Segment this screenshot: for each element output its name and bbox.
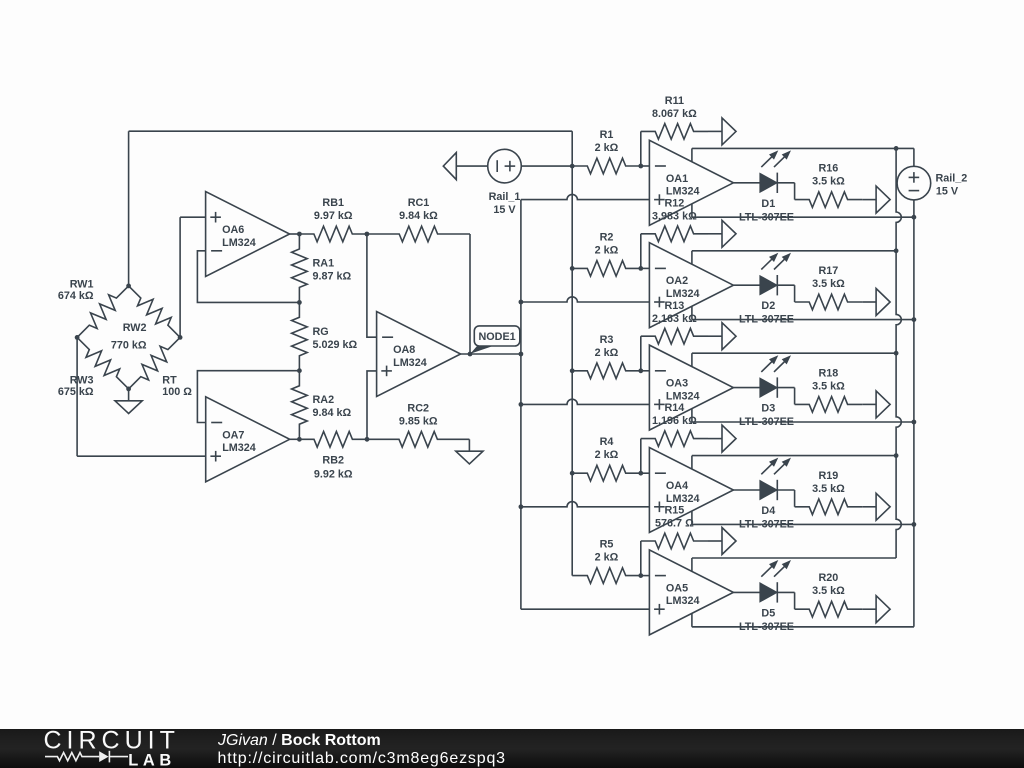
wire: OA4 V- pin to bottom rail bbox=[691, 511, 693, 524]
op-amp OA2 bbox=[649, 243, 733, 328]
junction (77.1,337.4) bbox=[75, 335, 80, 340]
svg-text:RC2: RC2 bbox=[407, 402, 429, 414]
resistor RB2 9.92k bbox=[299, 432, 367, 448]
junction (572.2,473.2) bbox=[570, 471, 575, 476]
svg-text:9.84 kΩ: 9.84 kΩ bbox=[313, 407, 352, 419]
svg-text:2 kΩ: 2 kΩ bbox=[595, 552, 619, 564]
svg-text:675 kΩ: 675 kΩ bbox=[58, 386, 94, 398]
svg-text:http://circuitlab.com/c3m8eg6e: http://circuitlab.com/c3m8eg6ezspq3 bbox=[218, 750, 506, 767]
junction (640.8,370.8) bbox=[638, 368, 643, 373]
svg-text:D5: D5 bbox=[761, 607, 775, 619]
wire: OA7 - feedback loop to RG/RA2 node bbox=[197, 371, 299, 423]
resistor R13 ladder 2,163 kΩ bbox=[640, 336, 642, 371]
svg-text:OA4: OA4 bbox=[666, 480, 688, 492]
svg-text:RC1: RC1 bbox=[408, 197, 430, 209]
wire: D5 to R110 step bbox=[794, 592, 796, 609]
svg-text:OA5: OA5 bbox=[666, 582, 688, 594]
wire: OA8 output to NODE1 column bbox=[461, 353, 521, 355]
wire: NODE1 to OA4 + input bbox=[521, 502, 650, 507]
svg-text:3.5 kΩ: 3.5 kΩ bbox=[812, 483, 845, 495]
junction (640.8,268.4) bbox=[638, 266, 643, 271]
junction (299.4,370.7) bbox=[297, 368, 302, 373]
node flag (R11 output net) bbox=[722, 118, 736, 145]
junction (470.0,354.0) bbox=[468, 352, 473, 357]
svg-text:15 V: 15 V bbox=[936, 186, 959, 198]
svg-text:15 V: 15 V bbox=[493, 204, 516, 216]
resistor RW3 675k (bridge bottom-left arm) bbox=[77, 337, 129, 389]
node flag (R12 output net) bbox=[722, 220, 736, 247]
svg-text:LM324: LM324 bbox=[222, 442, 256, 454]
node flag (R13 output net) bbox=[722, 323, 736, 350]
svg-text:LM324: LM324 bbox=[666, 186, 700, 198]
junction (572.2,268.4) bbox=[570, 266, 575, 271]
svg-text:2 kΩ: 2 kΩ bbox=[595, 449, 619, 461]
junction (913.9,217.2) bbox=[912, 215, 917, 220]
svg-text:NODE1: NODE1 bbox=[478, 331, 515, 343]
svg-text:2 kΩ: 2 kΩ bbox=[595, 347, 619, 359]
svg-text:R15: R15 bbox=[664, 505, 684, 517]
svg-text:LAB: LAB bbox=[128, 751, 176, 768]
wire: OA8 - to RB1/RC1 node bbox=[367, 234, 377, 337]
wire: OA1 V- pin to bottom rail bbox=[691, 204, 693, 217]
svg-text:2 kΩ: 2 kΩ bbox=[595, 244, 619, 256]
svg-text:CIRCUIT: CIRCUIT bbox=[44, 726, 180, 754]
svg-text:OA7: OA7 bbox=[222, 429, 244, 441]
svg-text:9.87 kΩ: 9.87 kΩ bbox=[313, 270, 352, 282]
op-amp OA1 bbox=[649, 140, 733, 225]
ground (RC2) bbox=[468, 439, 470, 451]
wire: bridge left node down to OA7 + bbox=[76, 337, 78, 456]
voltage source Rail_1 15V bbox=[443, 153, 456, 180]
svg-text:RW2: RW2 bbox=[123, 322, 147, 334]
op-amp OA3 bbox=[649, 345, 733, 430]
svg-text:2,163 kΩ: 2,163 kΩ bbox=[652, 313, 697, 325]
resistor RC1 9.84k bbox=[367, 226, 470, 242]
junction (896.1,455.6) bbox=[894, 453, 899, 458]
wire: OA7 output bbox=[290, 438, 300, 440]
svg-text:674 kΩ: 674 kΩ bbox=[58, 290, 94, 302]
svg-text:LM324: LM324 bbox=[666, 595, 700, 607]
wire: bridge right node up to OA6 + bbox=[179, 217, 181, 337]
junction (299.4,234.0) bbox=[297, 232, 302, 237]
wire: right rail B top corner bbox=[913, 148, 915, 166]
svg-text:OA6: OA6 bbox=[222, 224, 244, 236]
wire: D1 to R16 step bbox=[794, 183, 796, 200]
svg-text:100 Ω: 100 Ω bbox=[162, 386, 192, 398]
wire: OA3 V+ pin to top rail bbox=[691, 353, 693, 366]
wire: bridge top node riser bbox=[128, 131, 130, 286]
ground (bridge bottom) bbox=[128, 389, 130, 401]
svg-text:2 kΩ: 2 kΩ bbox=[595, 142, 619, 154]
node flag (R16 net) bbox=[876, 186, 890, 213]
wire: right rail A (op-amp V+ rail) bbox=[896, 148, 901, 558]
svg-text:9.84 kΩ: 9.84 kΩ bbox=[399, 210, 438, 222]
junction (572.2,166.1) bbox=[570, 164, 575, 169]
wire: R4 to OA4 - input bbox=[641, 472, 650, 474]
node flag (R14 output net) bbox=[722, 425, 736, 452]
wire: D2 to R17 step bbox=[794, 285, 796, 302]
svg-text:9.97 kΩ: 9.97 kΩ bbox=[314, 210, 353, 222]
wire: D4 to R19 step bbox=[794, 490, 796, 507]
LED D1 LTL-307EE bbox=[733, 182, 760, 184]
junction (180.1,337.4) bbox=[178, 335, 183, 340]
svg-text:3,983 kΩ: 3,983 kΩ bbox=[652, 210, 697, 222]
wire: OA6 output bbox=[290, 233, 300, 235]
svg-text:R13: R13 bbox=[664, 300, 684, 312]
junction (896.1,148.4) bbox=[894, 146, 899, 151]
junction (572.2,370.8) bbox=[570, 368, 575, 373]
svg-text:LM324: LM324 bbox=[666, 390, 700, 402]
resistor R17 3.5k bbox=[795, 294, 863, 310]
svg-text:5.029 kΩ: 5.029 kΩ bbox=[313, 339, 358, 351]
wire: OA5 V- pin to bottom rail bbox=[691, 613, 693, 626]
svg-text:RG: RG bbox=[313, 326, 329, 338]
wire: right rail B (op-amp V- rail) bbox=[913, 200, 915, 627]
resistor RC2 9.85k bbox=[367, 432, 469, 448]
op-amp OA7 bbox=[206, 397, 290, 482]
resistor RA2 9.84k bbox=[292, 371, 308, 440]
resistor RB1 9.97k bbox=[299, 226, 367, 242]
junction (896.1,250.8) bbox=[894, 248, 899, 253]
wire: OA1 V+ pin to top rail bbox=[691, 148, 693, 161]
op-amp OA4 bbox=[649, 448, 733, 533]
node flag (R15 output net) bbox=[722, 528, 736, 555]
svg-text:R2: R2 bbox=[600, 231, 614, 243]
wire: OA5 V+ pin to top rail bbox=[691, 558, 693, 571]
svg-text:R3: R3 bbox=[600, 334, 614, 346]
junction (913.9,524.4) bbox=[912, 522, 917, 527]
resistor R3 2k bbox=[572, 363, 641, 379]
svg-text:OA2: OA2 bbox=[666, 275, 688, 287]
LED D5 LTL-307EE bbox=[733, 591, 760, 593]
svg-text:R18: R18 bbox=[818, 367, 838, 379]
resistor R11 ladder 8.067 kΩ bbox=[640, 131, 642, 166]
op-amp OA5 bbox=[649, 550, 733, 635]
resistor R16 3.5k bbox=[795, 192, 863, 208]
op-amp OA8 bbox=[377, 312, 461, 397]
svg-text:LM324: LM324 bbox=[393, 357, 427, 369]
svg-text:9.85 kΩ: 9.85 kΩ bbox=[399, 415, 438, 427]
resistor R2 2k bbox=[572, 261, 641, 277]
resistor RA1 9.87k bbox=[292, 234, 308, 302]
svg-text:770 kΩ: 770 kΩ bbox=[111, 339, 147, 351]
wire: NODE1 to OA5 + input bbox=[521, 608, 650, 610]
svg-text:R16: R16 bbox=[818, 163, 838, 175]
resistor RT 100 (bridge bottom-right arm) bbox=[129, 337, 181, 389]
node flag (R19 net) bbox=[876, 493, 890, 520]
voltage source Rail_2 15V bbox=[897, 166, 931, 200]
svg-text:Rail_2: Rail_2 bbox=[936, 173, 968, 185]
wire: OA4 V+ pin to top rail bbox=[691, 456, 693, 469]
wire: NODE1 to OA2 + input bbox=[521, 297, 650, 302]
svg-text:R11: R11 bbox=[665, 95, 684, 107]
svg-text:RB1: RB1 bbox=[322, 197, 344, 209]
svg-text:3.5 kΩ: 3.5 kΩ bbox=[812, 278, 845, 290]
wire: R2 to OA2 - input bbox=[641, 267, 650, 269]
wire: OA8 + to RB2/RC2 node bbox=[367, 371, 377, 439]
resistor R15 ladder 576.7 Ω bbox=[640, 541, 642, 576]
wire: top-left rail from bridge to Rail_1 column bbox=[129, 130, 573, 132]
resistor R5 2k bbox=[572, 568, 641, 584]
node NODE1 flag bbox=[470, 346, 493, 354]
node flag (R20 net) bbox=[876, 596, 890, 623]
svg-text:LM324: LM324 bbox=[666, 288, 700, 300]
junction (366.9,234.0) bbox=[365, 232, 370, 237]
wire: RC1 feedback down to OA8 output bbox=[469, 234, 471, 354]
junction (640.8,166.0) bbox=[638, 164, 643, 169]
svg-text:RT: RT bbox=[162, 374, 177, 386]
wire: OA2 V+ pin to top rail bbox=[691, 251, 693, 264]
svg-text:RB2: RB2 bbox=[322, 454, 344, 466]
svg-text:RA1: RA1 bbox=[313, 257, 335, 269]
resistor R14 ladder 1,196 kΩ bbox=[640, 439, 642, 474]
wire: NODE1 to OA3 + input bbox=[521, 399, 650, 404]
resistor R1 2k bbox=[572, 158, 641, 174]
junction (913.9,422.0) bbox=[912, 420, 917, 425]
junction (896.1,353.2) bbox=[894, 351, 899, 356]
svg-text:JGivan / Bock Rottom: JGivan / Bock Rottom bbox=[217, 732, 381, 749]
wire: OA6 - feedback loop to RA1/RG node bbox=[197, 251, 299, 303]
junction (640.8,575.6) bbox=[638, 573, 643, 578]
svg-text:576.7 Ω: 576.7 Ω bbox=[655, 518, 694, 530]
svg-text:LTL-307EE: LTL-307EE bbox=[739, 416, 794, 428]
LED D4 LTL-307EE bbox=[733, 489, 760, 491]
svg-text:8.067 kΩ: 8.067 kΩ bbox=[652, 108, 697, 120]
wire: R3 to OA3 - input bbox=[641, 370, 650, 372]
svg-text:Rail_1: Rail_1 bbox=[489, 191, 521, 203]
resistor R20 3.5k bbox=[795, 601, 863, 617]
svg-text:R1: R1 bbox=[600, 129, 614, 141]
svg-text:D3: D3 bbox=[761, 403, 775, 415]
junction (520.9,302.0) bbox=[519, 300, 524, 305]
svg-text:OA8: OA8 bbox=[393, 344, 415, 356]
svg-text:R17: R17 bbox=[818, 265, 838, 277]
svg-text:3.5 kΩ: 3.5 kΩ bbox=[812, 176, 845, 188]
junction (299.4,439.3) bbox=[297, 437, 302, 442]
svg-text:D4: D4 bbox=[761, 505, 775, 517]
node flag (R18 net) bbox=[876, 391, 890, 418]
wire: NODE1 to OA1 + input bbox=[521, 194, 650, 199]
junction (913.9,319.6) bbox=[912, 317, 917, 322]
svg-text:LTL-307EE: LTL-307EE bbox=[739, 314, 794, 326]
junction (520.9,354.0) bbox=[519, 352, 524, 357]
svg-text:D2: D2 bbox=[761, 300, 775, 312]
svg-text:3.5 kΩ: 3.5 kΩ bbox=[812, 585, 845, 597]
svg-text:R20: R20 bbox=[818, 572, 838, 584]
CircuitLab logo doodle (resistor + diode) bbox=[45, 751, 128, 763]
junction (128.6,388.9) bbox=[126, 387, 131, 392]
svg-text:R4: R4 bbox=[600, 436, 614, 448]
svg-text:RA2: RA2 bbox=[313, 394, 335, 406]
svg-text:LTL-307EE: LTL-307EE bbox=[739, 211, 794, 223]
svg-text:RW1: RW1 bbox=[70, 279, 94, 291]
wire: R1 to OA1 - input bbox=[641, 165, 650, 167]
svg-text:R12: R12 bbox=[664, 197, 684, 209]
LED D2 LTL-307EE bbox=[733, 284, 760, 286]
svg-text:OA1: OA1 bbox=[666, 173, 688, 185]
wire: OA3 V- pin to bottom rail bbox=[691, 409, 693, 422]
resistor R18 3.5k bbox=[795, 397, 863, 413]
svg-text:RW3: RW3 bbox=[70, 374, 94, 386]
junction (367.0,439.3) bbox=[365, 437, 370, 442]
resistor R12 ladder 3,983 kΩ bbox=[640, 234, 642, 269]
svg-text:D1: D1 bbox=[761, 198, 775, 210]
junction (128.6,285.9) bbox=[126, 284, 131, 289]
op-amp OA6 bbox=[206, 192, 290, 277]
svg-text:R14: R14 bbox=[664, 402, 684, 414]
resistor RG 5.029k bbox=[292, 302, 308, 370]
svg-text:R5: R5 bbox=[600, 539, 614, 551]
node flag (R17 net) bbox=[876, 289, 890, 316]
resistor RW2 770k (bridge top-right arm) bbox=[129, 286, 181, 338]
svg-text:OA3: OA3 bbox=[666, 378, 688, 390]
wire: OA2 V- pin to bottom rail bbox=[691, 306, 693, 319]
svg-text:LTL-307EE: LTL-307EE bbox=[739, 519, 794, 531]
svg-text:3.5 kΩ: 3.5 kΩ bbox=[812, 380, 845, 392]
resistor R4 2k bbox=[572, 465, 641, 481]
svg-text:LM324: LM324 bbox=[666, 493, 700, 505]
resistor RW1 674k (bridge top-left arm) bbox=[77, 286, 129, 338]
svg-text:LM324: LM324 bbox=[222, 237, 256, 249]
wire: NODE1 column bbox=[520, 200, 522, 610]
junction (520.9,404.4) bbox=[519, 402, 524, 407]
resistor R19 3.5k bbox=[795, 499, 863, 515]
wire: Rail_1 column down to R5 bbox=[571, 166, 573, 575]
svg-text:R19: R19 bbox=[818, 470, 838, 482]
svg-text:9.92 kΩ: 9.92 kΩ bbox=[314, 468, 353, 480]
wire: Rail_1 riser to top rail bbox=[571, 131, 573, 166]
junction (640.8,473.2) bbox=[638, 471, 643, 476]
svg-text:1,196 kΩ: 1,196 kΩ bbox=[652, 415, 697, 427]
wire: D3 to R18 step bbox=[794, 388, 796, 405]
junction (299.4,302.4) bbox=[297, 300, 302, 305]
junction (520.9,506.8) bbox=[519, 504, 524, 509]
wire: R5 to OA5 - input bbox=[641, 575, 650, 577]
LED D3 LTL-307EE bbox=[733, 387, 760, 389]
